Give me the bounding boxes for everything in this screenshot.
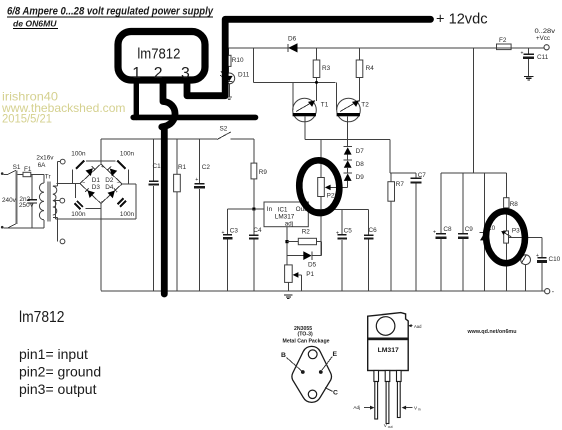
wire Out rail xyxy=(308,208,368,210)
svg-text:C10: C10 xyxy=(549,256,561,263)
svg-text:C9: C9 xyxy=(465,226,474,233)
svg-text:2x16v: 2x16v xyxy=(36,154,54,161)
annotation circle P2 xyxy=(298,159,342,214)
svg-text:pin1= input: pin1= input xyxy=(19,346,88,362)
diode D5 xyxy=(287,251,322,268)
transistor T2 xyxy=(336,82,369,146)
bridge inner diamond xyxy=(80,164,122,205)
capacitor C4 xyxy=(249,209,262,291)
svg-text:R2: R2 xyxy=(302,228,311,235)
wire primary bottom xyxy=(8,227,45,229)
svg-text:D2: D2 xyxy=(105,177,114,184)
diode D6 xyxy=(288,36,298,53)
svg-text:S1: S1 xyxy=(13,164,21,171)
svg-text:R9: R9 xyxy=(259,169,268,176)
svg-text:D1: D1 xyxy=(92,177,101,184)
wire diode chain to P2 wiper xyxy=(330,186,348,188)
svg-text:C2: C2 xyxy=(202,164,211,171)
wire rail R7C7 xyxy=(390,172,416,174)
svg-text:+: + xyxy=(222,230,225,236)
annotation pin2 line with hop xyxy=(162,81,175,294)
diode D2 xyxy=(105,166,117,184)
LED D11 xyxy=(220,71,249,99)
resistor R8 xyxy=(504,173,519,231)
output minus terminal xyxy=(545,289,555,296)
wire In xyxy=(228,208,264,210)
svg-text:100n: 100n xyxy=(71,151,86,158)
svg-text:240v: 240v xyxy=(2,197,17,204)
diode D8 xyxy=(344,160,365,173)
fuse F1 xyxy=(23,166,44,177)
svg-text:~: ~ xyxy=(117,181,120,187)
svg-text:C3: C3 xyxy=(230,228,239,235)
svg-text:+: + xyxy=(101,164,104,170)
wire base rail xyxy=(254,81,336,83)
resistor R7 xyxy=(388,173,405,291)
transformer Tr xyxy=(36,154,59,241)
svg-text:pin3= output: pin3= output xyxy=(19,381,97,397)
pin description text xyxy=(19,346,101,397)
dc rail wire with switch S2 xyxy=(101,126,254,140)
potentiometer P1 xyxy=(285,265,315,291)
secondary terminal bottom xyxy=(60,239,65,244)
annotation circle P3 xyxy=(485,210,526,264)
svg-text:R1: R1 xyxy=(178,164,187,171)
bridge cap SW 100n xyxy=(71,184,101,219)
capacitor C3 xyxy=(222,209,239,291)
svg-text:+Vcc: +Vcc xyxy=(536,35,550,42)
svg-text:100n: 100n xyxy=(120,151,135,158)
bridge cap SE 100n xyxy=(118,198,135,218)
svg-text:D9: D9 xyxy=(356,174,365,181)
ground bus wire xyxy=(101,290,544,292)
wire vcc feed drop xyxy=(473,48,475,173)
svg-text:100n: 100n xyxy=(71,211,86,218)
diode D3 xyxy=(85,184,100,198)
potentiometer P2 xyxy=(318,139,338,255)
svg-text:B: B xyxy=(281,352,286,359)
junction adj/R2 xyxy=(285,240,288,243)
svg-text:lm7812: lm7812 xyxy=(137,47,180,63)
svg-text:D5: D5 xyxy=(308,261,317,268)
svg-text:R10: R10 xyxy=(232,57,244,64)
meter terminal circle xyxy=(521,255,531,291)
svg-text:lm7812: lm7812 xyxy=(19,309,65,326)
capacitor C5 xyxy=(336,209,352,290)
secondary terminal mid xyxy=(60,198,65,203)
annotation pin3 line xyxy=(187,19,431,95)
svg-text:pin2= ground: pin2= ground xyxy=(19,363,101,379)
emitter rail wire xyxy=(305,138,390,140)
resistor R2 xyxy=(287,228,322,244)
svg-text:C5: C5 xyxy=(344,228,353,235)
annotation bus line xyxy=(133,115,255,121)
annotation pin1 line xyxy=(134,81,139,117)
wire bridge minus down xyxy=(100,204,102,291)
svg-text:~: ~ xyxy=(82,181,85,187)
watermark xyxy=(1,91,126,126)
svg-text:E: E xyxy=(333,351,338,358)
svg-text:2015/5/21: 2015/5/21 xyxy=(2,113,52,126)
svg-text:Aad: Aad xyxy=(414,324,422,329)
legs xyxy=(374,371,379,382)
svg-text:6A: 6A xyxy=(38,162,47,169)
svg-text:P1: P1 xyxy=(306,271,314,278)
junction In/R9 xyxy=(252,208,255,211)
wire ac left xyxy=(56,183,80,185)
svg-text:Adj: Adj xyxy=(353,405,360,410)
bridge cap NW 100n xyxy=(71,151,101,184)
svg-text:250V: 250V xyxy=(19,202,35,209)
svg-text:IC1: IC1 xyxy=(278,207,288,214)
svg-text:D8: D8 xyxy=(356,161,365,168)
svg-text:C: C xyxy=(333,390,338,397)
svg-text:C6: C6 xyxy=(369,227,378,234)
svg-text:P3: P3 xyxy=(512,228,520,235)
wire P2 bottom to R2/D5 xyxy=(321,242,323,256)
ground below C11 xyxy=(524,77,534,80)
svg-text:out: out xyxy=(388,425,393,429)
svg-text:Metal Can Package: Metal Can Package xyxy=(283,339,330,345)
wire base feed xyxy=(253,48,255,83)
wire bridge right frame xyxy=(56,184,136,219)
capacitor C9 xyxy=(458,173,474,291)
capacitor C10 xyxy=(536,238,561,291)
resistor R3 xyxy=(313,48,330,101)
svg-text:(TO-3): (TO-3) xyxy=(298,331,313,337)
resistor R1 xyxy=(174,139,187,290)
svg-text:+: + xyxy=(195,177,198,183)
diode D1 xyxy=(86,166,101,184)
top rail wire xyxy=(227,47,544,49)
svg-text:+: + xyxy=(521,51,524,57)
wire right rail xyxy=(441,172,507,174)
svg-text:C8: C8 xyxy=(443,226,452,233)
output plus terminal xyxy=(535,28,557,50)
resistor R9 xyxy=(251,139,267,209)
svg-text:C4: C4 xyxy=(253,227,262,234)
LM317 TO-220 package drawing xyxy=(353,313,422,429)
bridge cap NE 100n xyxy=(101,151,135,184)
svg-text:D3: D3 xyxy=(92,184,101,191)
transistor T1 xyxy=(293,82,329,139)
svg-text:+: + xyxy=(433,229,436,235)
svg-text:Tr: Tr xyxy=(45,174,52,181)
svg-text:+ 12vdc: + 12vdc xyxy=(436,11,488,27)
svg-text:S2: S2 xyxy=(220,126,228,133)
svg-text:C11: C11 xyxy=(537,54,549,61)
wire sec top stub xyxy=(57,161,60,163)
annotation box lm7812 xyxy=(118,32,205,83)
capacitor C11 xyxy=(521,48,549,76)
svg-text:adj: adj xyxy=(285,220,293,227)
capacitor C2 xyxy=(194,139,210,290)
svg-text:+: + xyxy=(336,230,339,236)
diode D7 xyxy=(344,147,365,160)
svg-text:R8: R8 xyxy=(510,201,519,208)
svg-text:www.qd.net/on6mu: www.qd.net/on6mu xyxy=(467,329,517,335)
2N3055 package drawing xyxy=(281,326,338,402)
secondary terminal top xyxy=(60,159,65,164)
svg-text:6/8 Ampere 0...28 volt regulat: 6/8 Ampere 0...28 volt regulated power s… xyxy=(7,6,214,18)
diode D9 xyxy=(344,173,365,188)
svg-text:in: in xyxy=(418,407,421,411)
svg-text:100n: 100n xyxy=(120,211,135,218)
svg-text:R4: R4 xyxy=(366,65,375,72)
svg-text:T1: T1 xyxy=(321,102,329,109)
svg-text:R3: R3 xyxy=(322,65,331,72)
svg-text:D11: D11 xyxy=(238,71,250,78)
wire CT drop xyxy=(56,201,60,220)
resistor R10 with LED D11 branch xyxy=(226,48,244,73)
svg-text:+: + xyxy=(536,253,539,259)
svg-text:C1: C1 xyxy=(153,163,162,170)
wire bridge plus up xyxy=(100,139,102,164)
svg-text:R7: R7 xyxy=(396,181,405,188)
capacitor C7 xyxy=(411,172,427,290)
potentiometer P3 xyxy=(501,228,542,291)
switch S1 xyxy=(1,164,23,229)
svg-text:D4: D4 xyxy=(105,184,114,191)
svg-text:de ON6MU: de ON6MU xyxy=(13,19,57,29)
ground below P1 xyxy=(284,295,292,298)
wire adj drop xyxy=(286,227,288,265)
svg-text:D7: D7 xyxy=(356,148,365,155)
capacitor 2n2 250V xyxy=(19,174,37,228)
svg-text:LM317: LM317 xyxy=(378,347,399,354)
capacitor C6 xyxy=(364,209,377,290)
svg-text:In: In xyxy=(267,206,273,213)
fuse F2 xyxy=(497,37,512,50)
title text xyxy=(7,6,214,29)
wire emitter rail drop xyxy=(389,139,391,173)
svg-text:T2: T2 xyxy=(361,102,369,109)
capacitor C1 xyxy=(149,139,161,290)
capacitor C8 xyxy=(433,173,452,291)
svg-text:F2: F2 xyxy=(499,37,507,44)
IC1 LM317 box xyxy=(264,202,308,227)
svg-text:F1: F1 xyxy=(24,166,32,173)
diode D10 xyxy=(480,173,496,291)
svg-text:C7: C7 xyxy=(418,172,427,179)
resistor R4 xyxy=(356,48,374,102)
svg-text:D6: D6 xyxy=(288,36,297,43)
diode D4 xyxy=(105,184,117,198)
